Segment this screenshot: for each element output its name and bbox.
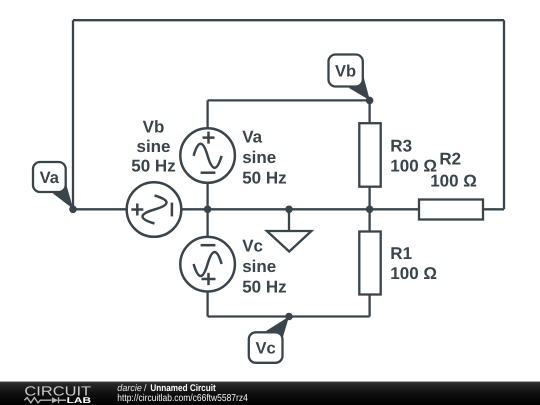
resistor R3	[359, 123, 380, 187]
svg-text:Vb: Vb	[143, 118, 165, 137]
svg-text:R3: R3	[390, 136, 412, 155]
svg-text:50 Hz: 50 Hz	[131, 157, 175, 176]
svg-text:50 Hz: 50 Hz	[242, 278, 286, 297]
wire inner top horizontal	[208, 99, 370, 101]
voltage source V3 Vc (vertical, flipped)	[180, 237, 235, 292]
wire Va top lead	[206, 100, 208, 128]
resistor R1	[359, 232, 380, 295]
svg-text:LAB: LAB	[67, 395, 91, 405]
svg-text:R1: R1	[390, 244, 412, 263]
junction rail-ground	[285, 206, 293, 214]
label V1 value: Va sine 50 Hz	[242, 127, 286, 187]
wire R3-R1 vertical	[368, 187, 370, 232]
svg-text:Va: Va	[40, 169, 60, 187]
svg-text:sine: sine	[242, 148, 276, 167]
wire R1 bottom lead	[368, 295, 370, 317]
wire right vertical	[503, 20, 505, 209]
wire R3 top lead	[368, 100, 370, 123]
node label Vb	[329, 55, 370, 101]
svg-text:Vb: Vb	[335, 63, 356, 81]
svg-text:100 Ω: 100 Ω	[390, 264, 437, 283]
wire Vc bottom lead	[206, 291, 208, 316]
resistor R2 (horizontal)	[419, 200, 483, 220]
node B junction dot (Vb tap)	[366, 97, 374, 105]
node label Va	[33, 162, 73, 209]
voltage source V1 Va (vertical)	[180, 128, 235, 183]
footer bar	[0, 382, 540, 405]
node C junction dot (Vc tap)	[285, 313, 293, 321]
svg-text:100 Ω: 100 Ω	[430, 171, 477, 190]
svg-text:sine: sine	[242, 257, 276, 276]
wire outer loop top	[73, 19, 504, 21]
junction rail-R3-R1	[366, 206, 374, 214]
label R3 value	[390, 136, 437, 175]
voltage source V2 Vb (horizontal)	[127, 182, 182, 237]
junction rail-Va	[204, 206, 212, 214]
label V2 value: Vb sine 50 Hz	[131, 118, 175, 176]
svg-text:Vc: Vc	[242, 237, 263, 256]
wire rail main segment	[182, 208, 420, 210]
wire Va bottom lead	[206, 183, 208, 210]
label V3 value: Vc sine 50 Hz	[242, 237, 286, 297]
node A junction dot (Va tap)	[69, 206, 77, 214]
svg-text:http://circuitlab.com/c66ftw55: http://circuitlab.com/c66ftw5587rz4	[117, 393, 248, 404]
label R1 value	[390, 244, 437, 283]
svg-text:Va: Va	[242, 127, 262, 146]
wire rail left segment	[73, 208, 127, 210]
wire bottom rail	[208, 315, 370, 317]
label R2 value	[430, 150, 477, 191]
wire R2 right to right vertical	[483, 208, 504, 210]
wire left vertical	[72, 20, 74, 209]
svg-text:sine: sine	[136, 137, 170, 156]
node label Vc	[249, 317, 289, 363]
footer logo doodle (resistor + diode)	[24, 397, 66, 403]
ground	[267, 209, 312, 251]
wire Vc top lead	[206, 209, 208, 237]
svg-text:Vc: Vc	[256, 339, 276, 357]
svg-text:50 Hz: 50 Hz	[242, 169, 286, 188]
svg-text:R2: R2	[439, 150, 461, 169]
